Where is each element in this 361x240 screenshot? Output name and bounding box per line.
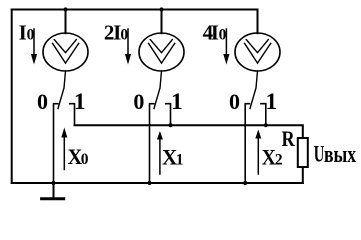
wire: bottom ground bus — [12, 182, 303, 184]
switch S1 contact 0 and post to ground bus — [54, 104, 58, 183]
svg-text:0: 0 — [133, 89, 144, 114]
arrow shaft of 4I0 label — [225, 29, 227, 55]
ground symbol bar — [42, 197, 64, 200]
svg-text:1: 1 — [74, 89, 86, 115]
arrowhead up: X1 — [157, 131, 163, 140]
svg-text:0: 0 — [229, 89, 240, 114]
junction dot: top bus / G1 — [63, 7, 67, 11]
current source G3 chevron inner — [246, 40, 268, 53]
wire: top bus tap to current source 2 — [161, 10, 163, 34]
switch S2 contact 0 and post to ground bus — [150, 104, 154, 183]
arrowhead up: X0 — [61, 128, 67, 138]
arrow shaft of 2I0 label — [127, 29, 129, 55]
svg-text:R: R — [282, 126, 296, 151]
arrow shaft of X2 control — [257, 138, 259, 174]
junction dot: rail / S3 contact 1 — [264, 123, 268, 127]
arrow shaft of I0 label — [33, 29, 35, 55]
arrowhead up: X2 — [255, 130, 261, 139]
switch S2 contact 1 and post to output rail — [166, 104, 171, 126]
wire: drop from top bus to current source 3 — [257, 10, 259, 34]
current source G2 (circle) — [139, 33, 184, 71]
svg-text:0: 0 — [37, 89, 48, 114]
current source G1 chevron inner — [54, 40, 76, 53]
current source G1 (circle) — [43, 33, 88, 71]
current source G3 (circle) — [235, 33, 280, 71]
junction dot: ground bus / S2 post — [147, 181, 151, 185]
svg-text:1: 1 — [171, 89, 183, 115]
junction dot: rail / S2 contact 1 — [168, 123, 172, 127]
switch S3 lever wire from G3 — [250, 71, 258, 109]
svg-text:1: 1 — [266, 89, 278, 115]
arrowhead down: 4I0 — [223, 54, 229, 65]
svg-text:1: 1 — [176, 152, 184, 169]
wire: top bus tap to current source 1 — [65, 10, 67, 34]
svg-text:0: 0 — [27, 27, 35, 44]
resistor R body — [298, 138, 308, 167]
junction dot: ground bus / S1 post — [51, 181, 55, 185]
junction dot: ground bus / S3 post — [243, 181, 247, 185]
current source G2 chevron inner — [150, 40, 172, 53]
arrowhead down: I0 — [31, 54, 37, 65]
junction dot: top bus / G2 — [159, 7, 163, 11]
switch S2 lever wire from G2 — [154, 71, 162, 109]
switch S3 contact 0 and post to ground bus — [245, 104, 249, 183]
wire: top supply bus — [12, 9, 258, 11]
svg-text:I: I — [19, 21, 27, 45]
switch S3 contact 1 and post to output rail — [261, 104, 266, 126]
arrow shaft of X1 control — [159, 139, 161, 174]
svg-text:вых: вых — [324, 140, 356, 168]
current source G1 chevron outer — [53, 43, 79, 63]
wire: resistor bottom to ground bus — [302, 167, 304, 183]
current source G3 chevron outer — [245, 43, 271, 63]
arrowhead down: 2I0 — [125, 54, 131, 65]
ground symbol stem — [53, 183, 55, 198]
svg-text:2: 2 — [275, 152, 283, 169]
svg-text:0: 0 — [81, 151, 89, 168]
svg-text:U: U — [314, 142, 325, 167]
wire: output rail joining contacts 1 to resistor top — [75, 125, 303, 138]
current source G2 chevron outer — [149, 43, 175, 63]
switch S1 lever wire from G1 — [58, 71, 66, 109]
switch S1 contact 1 and post to output rail — [70, 104, 75, 126]
svg-text:0: 0 — [219, 27, 227, 44]
svg-text:X: X — [262, 145, 276, 170]
wire: left bus (top bus to ground bus) — [11, 10, 13, 184]
svg-text:0: 0 — [120, 27, 128, 44]
arrow shaft of X0 control — [63, 137, 65, 170]
